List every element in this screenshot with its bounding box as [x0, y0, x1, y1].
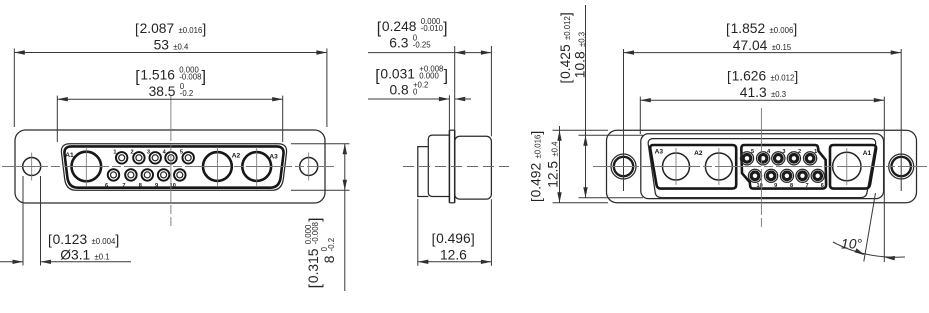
svg-text:]: ]: [202, 68, 206, 85]
svg-text:38.5: 38.5: [149, 84, 176, 99]
svg-text:41.3: 41.3: [740, 85, 767, 100]
svg-text:10.8: 10.8: [573, 51, 588, 78]
svg-text:]: ]: [794, 69, 798, 84]
svg-text:]: ]: [793, 22, 797, 37]
svg-text:2.087: 2.087: [140, 21, 175, 36]
svg-text:10°: 10°: [841, 236, 863, 252]
svg-text:6.3: 6.3: [389, 36, 409, 51]
svg-text:[: [: [529, 198, 544, 202]
svg-text:5: 5: [180, 150, 183, 156]
svg-text:1.516: 1.516: [140, 68, 175, 83]
svg-text:]: ]: [444, 67, 448, 84]
svg-text:0: 0: [413, 88, 418, 97]
svg-text:[: [: [726, 22, 730, 37]
svg-text:7: 7: [806, 183, 809, 189]
svg-text:Ø3.1: Ø3.1: [60, 247, 90, 262]
svg-text:0.496: 0.496: [436, 231, 471, 246]
svg-text:]: ]: [471, 231, 475, 246]
svg-text:1.852: 1.852: [731, 21, 766, 36]
svg-text:9: 9: [774, 183, 777, 189]
svg-text:±0.15: ±0.15: [772, 43, 792, 52]
svg-text:]: ]: [307, 218, 324, 222]
svg-text:±0.016: ±0.016: [179, 26, 203, 35]
svg-text:53: 53: [154, 38, 170, 53]
svg-text:A1: A1: [863, 150, 872, 157]
svg-text:8: 8: [790, 183, 793, 189]
svg-text:8: 8: [322, 255, 337, 263]
svg-text:5: 5: [751, 149, 754, 155]
svg-text:±0.012: ±0.012: [771, 74, 795, 83]
svg-text:0.248: 0.248: [382, 19, 417, 34]
svg-text:0.8: 0.8: [390, 83, 410, 98]
svg-text:A3: A3: [269, 154, 278, 161]
svg-text:0.315: 0.315: [306, 248, 321, 283]
svg-text:-0.010: -0.010: [421, 24, 444, 33]
svg-text:]: ]: [443, 20, 447, 37]
svg-text:2: 2: [798, 149, 801, 155]
svg-text:47.04: 47.04: [733, 38, 768, 53]
svg-text:1: 1: [113, 150, 116, 156]
svg-text:±0.012: ±0.012: [563, 16, 572, 40]
svg-text:±0.004: ±0.004: [92, 237, 116, 246]
svg-text:0.000: 0.000: [419, 72, 439, 81]
svg-text:0.031: 0.031: [380, 67, 415, 82]
svg-text:]: ]: [115, 232, 119, 247]
svg-text:0.123: 0.123: [53, 232, 88, 247]
svg-text:±0.4: ±0.4: [173, 43, 189, 52]
svg-text:]: ]: [529, 131, 544, 135]
svg-text:±0.1: ±0.1: [95, 252, 110, 261]
svg-text:±0.006: ±0.006: [770, 26, 794, 35]
svg-text:6: 6: [821, 183, 824, 189]
svg-text:-0.2: -0.2: [180, 89, 193, 98]
svg-text:±0.3: ±0.3: [771, 90, 786, 99]
svg-text:A2: A2: [694, 150, 703, 157]
svg-text:12.6: 12.6: [440, 247, 467, 262]
svg-text:[: [: [135, 21, 139, 36]
svg-text:-0.008: -0.008: [311, 222, 320, 244]
svg-text:7: 7: [122, 183, 125, 189]
svg-text:[: [: [558, 80, 573, 84]
svg-text:2: 2: [131, 150, 134, 156]
svg-text:3: 3: [782, 149, 785, 155]
svg-text:-0.25: -0.25: [413, 41, 431, 50]
svg-text:]: ]: [558, 12, 573, 16]
svg-text:1: 1: [814, 149, 817, 155]
svg-text:1.626: 1.626: [732, 69, 767, 84]
svg-text:-0.008: -0.008: [179, 73, 201, 82]
svg-text:[: [: [727, 69, 731, 84]
svg-text:8: 8: [139, 183, 142, 189]
svg-text:9: 9: [155, 183, 158, 189]
svg-text:]: ]: [202, 21, 206, 36]
svg-text:±0.3: ±0.3: [578, 32, 587, 47]
svg-text:[: [: [432, 231, 436, 246]
svg-text:0.425: 0.425: [558, 44, 573, 79]
svg-text:0.492: 0.492: [529, 163, 544, 198]
svg-text:3: 3: [147, 150, 150, 156]
svg-text:A3: A3: [655, 148, 664, 155]
svg-text:[: [: [48, 232, 52, 247]
svg-text:A2: A2: [232, 152, 241, 159]
svg-text:12.5: 12.5: [546, 161, 561, 188]
svg-text:±0.4: ±0.4: [551, 141, 560, 157]
svg-text:6: 6: [105, 183, 108, 189]
svg-text:-0.2: -0.2: [327, 238, 336, 251]
svg-text:±0.016: ±0.016: [534, 135, 543, 159]
svg-text:A1: A1: [65, 152, 74, 159]
